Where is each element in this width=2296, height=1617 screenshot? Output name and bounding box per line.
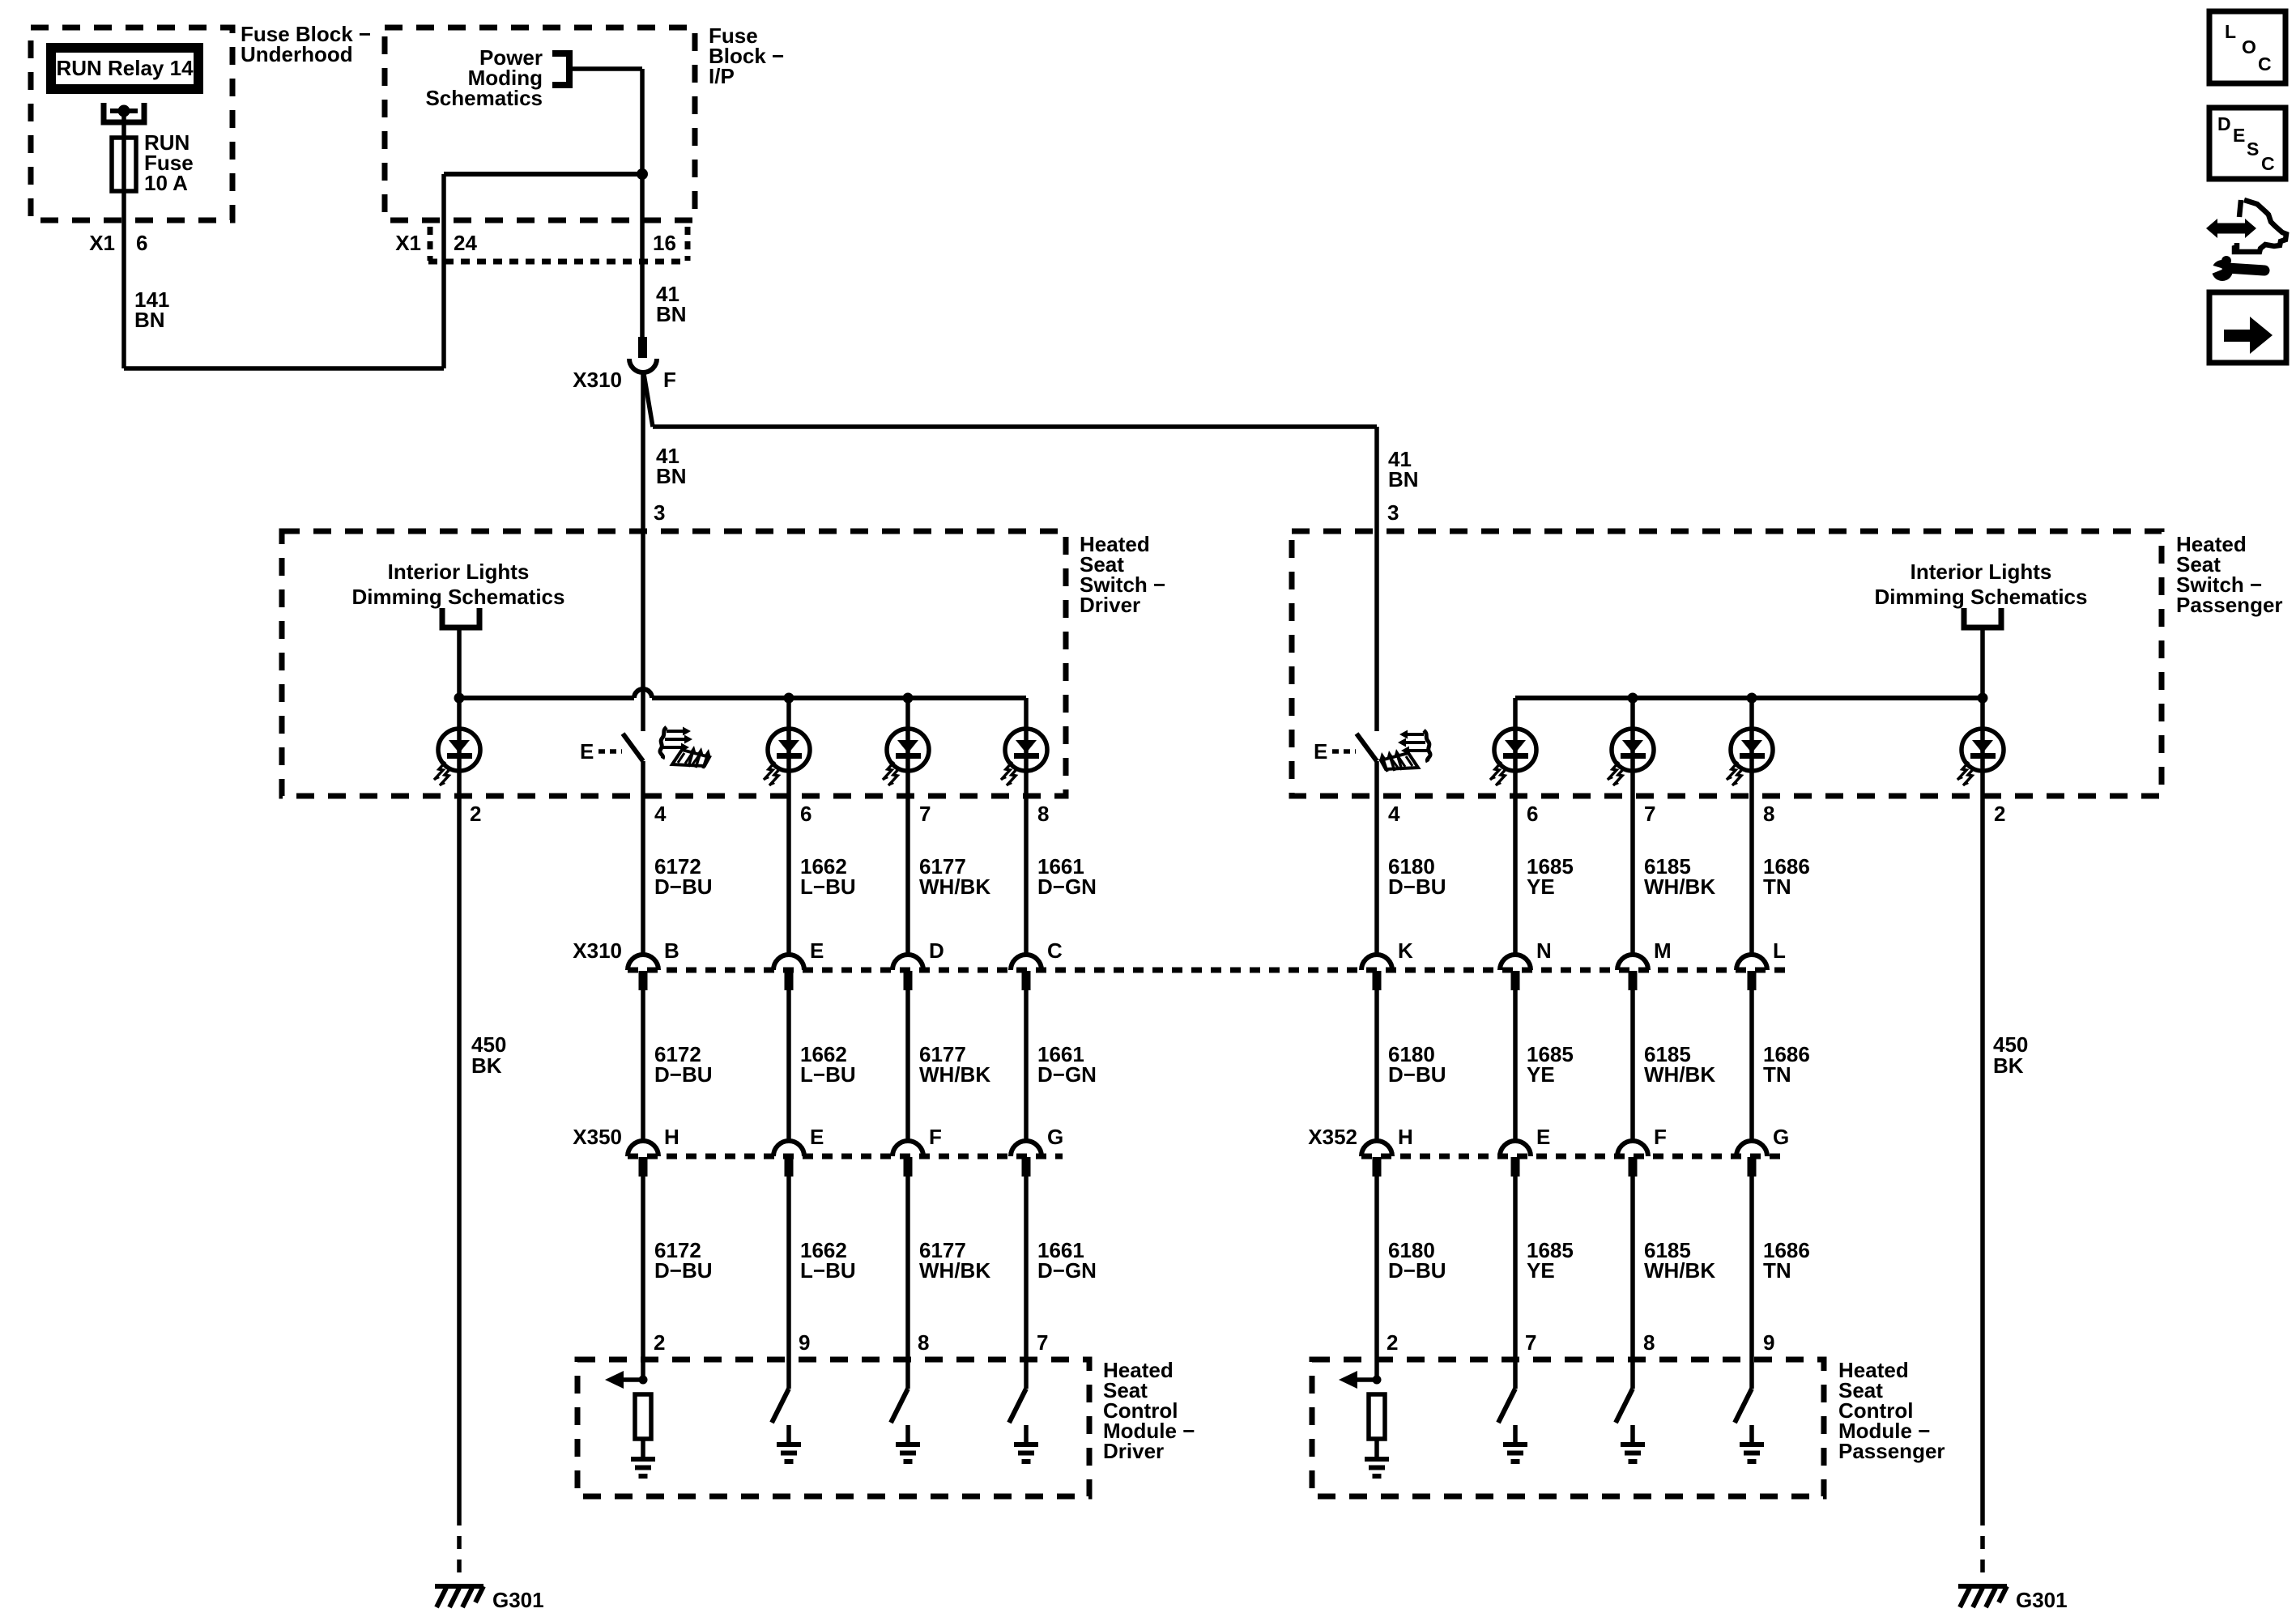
svg-text:4: 4 [654, 802, 667, 826]
svg-text:C: C [2261, 153, 2275, 174]
svg-text:2: 2 [470, 802, 481, 826]
svg-text:G: G [1773, 1125, 1789, 1149]
svg-text:E: E [810, 938, 824, 963]
svg-text:TN: TN [1763, 1258, 1791, 1283]
svg-text:O: O [2242, 36, 2256, 57]
svg-text:7: 7 [1037, 1330, 1048, 1355]
svg-text:H: H [1398, 1125, 1413, 1149]
svg-text:E: E [810, 1125, 824, 1149]
svg-text:D−BU: D−BU [654, 874, 713, 899]
svg-text:WH/BK: WH/BK [1644, 1258, 1715, 1283]
svg-text:Dimming Schematics: Dimming Schematics [1875, 585, 2088, 609]
svg-text:BN: BN [656, 302, 687, 326]
svg-text:BK: BK [1993, 1053, 2024, 1078]
svg-text:3: 3 [1387, 500, 1399, 525]
svg-text:BN: BN [656, 464, 687, 488]
svg-text:9: 9 [1763, 1330, 1774, 1355]
svg-text:X352: X352 [1308, 1125, 1357, 1149]
svg-text:E: E [580, 739, 594, 764]
svg-text:D: D [929, 938, 944, 963]
svg-text:X1: X1 [395, 231, 421, 255]
svg-text:2: 2 [1387, 1330, 1398, 1355]
svg-text:WH/BK: WH/BK [1644, 874, 1715, 899]
svg-text:6: 6 [1527, 802, 1538, 826]
svg-text:B: B [664, 938, 679, 963]
svg-text:H: H [664, 1125, 679, 1149]
svg-text:C: C [2258, 53, 2272, 74]
svg-text:D−GN: D−GN [1037, 1258, 1097, 1283]
svg-text:G: G [1047, 1125, 1063, 1149]
svg-text:L−BU: L−BU [800, 1258, 856, 1283]
svg-text:YE: YE [1527, 1258, 1555, 1283]
svg-text:E: E [1536, 1125, 1550, 1149]
svg-text:10 A: 10 A [144, 171, 188, 195]
svg-text:D−GN: D−GN [1037, 1062, 1097, 1087]
svg-text:BN: BN [134, 308, 165, 332]
svg-text:I/P: I/P [709, 64, 735, 88]
svg-text:Schematics: Schematics [425, 86, 543, 110]
svg-text:Interior Lights: Interior Lights [1910, 560, 2052, 584]
svg-text:4: 4 [1388, 802, 1400, 826]
svg-text:L: L [1773, 938, 1786, 963]
svg-text:WH/BK: WH/BK [919, 1062, 990, 1087]
svg-text:Underhood: Underhood [241, 42, 353, 66]
svg-text:K: K [1398, 938, 1413, 963]
svg-text:X350: X350 [573, 1125, 622, 1149]
svg-text:D−GN: D−GN [1037, 874, 1097, 899]
svg-text:YE: YE [1527, 874, 1555, 899]
svg-text:D−BU: D−BU [1388, 1258, 1446, 1283]
svg-text:D−BU: D−BU [654, 1258, 713, 1283]
svg-text:Passenger: Passenger [2176, 593, 2283, 617]
svg-text:S: S [2247, 138, 2259, 160]
svg-text:Passenger: Passenger [1838, 1439, 1945, 1463]
svg-text:D−BU: D−BU [654, 1062, 713, 1087]
svg-text:2: 2 [1994, 802, 2005, 826]
svg-text:TN: TN [1763, 874, 1791, 899]
svg-text:WH/BK: WH/BK [1644, 1062, 1715, 1087]
svg-text:X310: X310 [573, 938, 622, 963]
svg-text:2: 2 [654, 1330, 665, 1355]
svg-text:BK: BK [471, 1053, 502, 1078]
svg-text:8: 8 [1643, 1330, 1655, 1355]
svg-text:6: 6 [800, 802, 811, 826]
svg-text:Driver: Driver [1103, 1439, 1164, 1463]
svg-text:E: E [1314, 739, 1327, 764]
svg-text:24: 24 [454, 231, 477, 255]
svg-text:Interior Lights: Interior Lights [388, 560, 530, 584]
svg-text:7: 7 [1644, 802, 1655, 826]
svg-text:X1: X1 [89, 231, 115, 255]
svg-text:WH/BK: WH/BK [919, 1258, 990, 1283]
svg-text:L: L [2225, 21, 2236, 42]
svg-text:G301: G301 [2016, 1588, 2068, 1612]
svg-text:3: 3 [654, 500, 665, 525]
svg-text:6: 6 [136, 231, 147, 255]
svg-text:7: 7 [1525, 1330, 1536, 1355]
svg-text:C: C [1047, 938, 1063, 963]
svg-text:TN: TN [1763, 1062, 1791, 1087]
svg-text:E: E [2233, 125, 2245, 146]
svg-text:8: 8 [918, 1330, 929, 1355]
svg-text:16: 16 [653, 231, 676, 255]
svg-text:G301: G301 [492, 1588, 544, 1612]
svg-text:N: N [1536, 938, 1552, 963]
svg-text:Dimming Schematics: Dimming Schematics [352, 585, 565, 609]
svg-text:X310: X310 [573, 368, 622, 392]
svg-text:F: F [929, 1125, 942, 1149]
svg-text:Driver: Driver [1080, 593, 1140, 617]
svg-text:F: F [663, 368, 676, 392]
svg-text:D−BU: D−BU [1388, 1062, 1446, 1087]
svg-text:L−BU: L−BU [800, 874, 856, 899]
svg-text:L−BU: L−BU [800, 1062, 856, 1087]
svg-text:WH/BK: WH/BK [919, 874, 990, 899]
svg-text:YE: YE [1527, 1062, 1555, 1087]
svg-text:M: M [1654, 938, 1672, 963]
svg-text:BN: BN [1388, 467, 1419, 491]
svg-text:F: F [1654, 1125, 1667, 1149]
svg-text:D: D [2217, 113, 2231, 134]
svg-text:8: 8 [1763, 802, 1774, 826]
svg-text:8: 8 [1037, 802, 1049, 826]
svg-text:9: 9 [799, 1330, 810, 1355]
svg-text:RUN Relay 14: RUN Relay 14 [56, 56, 194, 80]
svg-text:D−BU: D−BU [1388, 874, 1446, 899]
svg-text:7: 7 [919, 802, 931, 826]
